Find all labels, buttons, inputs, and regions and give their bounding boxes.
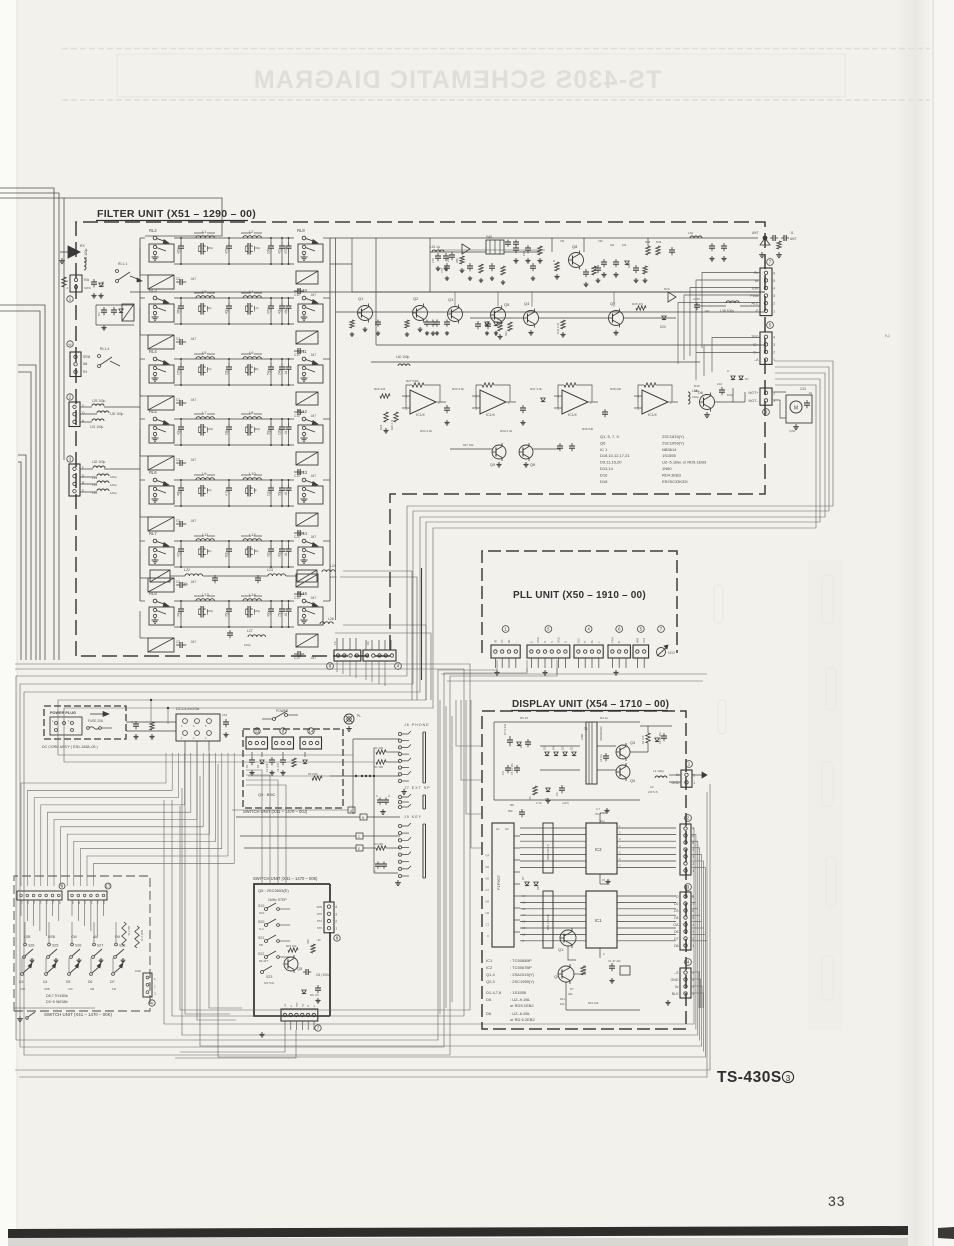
capacitor C4 150p (246, 245, 249, 247)
svg-text:RB1 (47k×8): RB1 (47k×8) (546, 914, 550, 930)
svg-text:D3: D3 (543, 746, 547, 750)
wire (140, 418, 145, 420)
svg-text:100μ: 100μ (110, 491, 117, 495)
svg-text:R1 470: R1 470 (641, 735, 645, 744)
inductor L34b (688, 392, 690, 404)
capacitor C78 220u (446, 263, 448, 266)
ground (517, 0, 519, 1)
svg-text:NOTCH: NOTCH (264, 981, 274, 985)
wire pin stub (564, 658, 566, 668)
svg-text:180p: 180p (254, 609, 261, 613)
svg-text:.04: .04 (284, 612, 288, 617)
wire conn B pins west (712, 338, 760, 373)
wire IC1 output (617, 914, 676, 916)
svg-text:42p: 42p (266, 551, 270, 557)
svg-text:14: 14 (309, 729, 314, 734)
svg-text:.047: .047 (704, 309, 710, 313)
svg-text:TX: TX (333, 641, 337, 645)
switch contact D4 (45, 973, 48, 976)
svg-text:C: C (131, 720, 133, 724)
wire bus: extra horizontals above power area (15, 664, 470, 1010)
svg-text:18p: 18p (224, 429, 228, 435)
FIP pin stub (514, 847, 520, 849)
svg-text:10k: 10k (560, 1002, 565, 1006)
svg-text:IC1/4: IC1/4 (648, 413, 657, 417)
capacitor C80b (491, 263, 493, 266)
svg-text:54p: 54p (266, 369, 270, 375)
relay coil RL6 (148, 517, 174, 531)
svg-text:.047: .047 (310, 535, 316, 539)
connector SW-J 3 (300, 737, 322, 749)
wire pin stub (618, 658, 620, 668)
wire bus: display left feed (456, 700, 482, 746)
svg-text:FWD: FWD (104, 899, 106, 904)
connector J bottom-right of filter (363, 650, 396, 661)
svg-text:RL15: RL15 (297, 591, 308, 596)
circled 5 (637, 626, 644, 633)
svg-text:Q8: Q8 (530, 463, 535, 467)
transistor Q2 (413, 306, 428, 321)
svg-text:C2: C2 (650, 785, 654, 789)
connector 3-pin C-O-A (69, 402, 80, 427)
wire (540, 745, 580, 747)
circled 4 (585, 626, 592, 633)
svg-text:GND: GND (672, 781, 680, 785)
svg-text:GND: GND (536, 637, 540, 643)
svg-text:.047 10k: .047 10k (462, 443, 474, 447)
svg-text:Q9 : B3iC: Q9 : B3iC (258, 792, 275, 797)
svg-text:O: O (543, 641, 547, 643)
svg-text:D1: D1 (570, 746, 574, 750)
svg-text:R45 47k: R45 47k (632, 302, 644, 306)
resistor cluster at Q8 (555, 262, 559, 271)
wire pin stub (544, 658, 546, 668)
op-amp IC1/4 section 4 (642, 390, 668, 414)
svg-text:2: 2 (773, 302, 775, 306)
svg-text:Q4: Q4 (554, 974, 560, 979)
wire IC2 input (520, 853, 586, 855)
svg-text:RL2: RL2 (576, 638, 580, 643)
wire IC2 output (617, 827, 676, 829)
svg-text:O3: O3 (674, 909, 679, 913)
relay coil RL14 (296, 574, 318, 587)
SWITCH UNIT J box (243, 729, 343, 808)
capacitor C52 (604, 409, 606, 412)
wire top sub-bus (437, 249, 545, 251)
svg-text:S26: S26 (28, 944, 34, 948)
svg-text:: TC5065BP: : TC5065BP (510, 958, 532, 963)
circled 4 (395, 663, 402, 670)
relay coil RL2 (148, 275, 174, 289)
wire IC2 output (617, 834, 676, 836)
svg-text:.047: .047 (190, 580, 196, 584)
mirrored bleed-through title text (253, 66, 662, 94)
svg-text:OA: OA (673, 923, 679, 927)
motor M (786, 395, 812, 423)
svg-text:–A: –A (754, 358, 759, 362)
diode D1 (119, 309, 123, 313)
svg-text:L31 100μ: L31 100μ (90, 425, 104, 429)
transistor D6 (700, 395, 715, 410)
transistor Q1 (358, 306, 373, 321)
wire amp mid (430, 251, 486, 253)
relay coil RL15 (296, 634, 318, 647)
svg-text:B: B (82, 481, 84, 485)
capacitor C15 220p (228, 302, 230, 306)
svg-text:100p: 100p (266, 247, 270, 254)
FIP pin stub (514, 919, 520, 921)
wire IC1 input (520, 908, 586, 910)
wire (568, 946, 576, 960)
svg-text:7μW: 7μW (789, 429, 795, 433)
svg-text:S23: S23 (266, 975, 272, 979)
diode D7 (655, 738, 659, 742)
trimmer VCO (657, 648, 666, 657)
wire opamp bus (371, 361, 700, 363)
svg-text:W05: W05 (317, 905, 323, 909)
inductor L34 (97, 481, 109, 483)
pilot lamp P.L (344, 714, 354, 724)
svg-text:1S1555: 1S1555 (662, 453, 677, 458)
wire IC1 input (520, 914, 586, 916)
svg-text:CW: CW (68, 987, 73, 991)
svg-text:DISPLAY UNIT (X54 – 1710 – 0: DISPLAY UNIT (X54 – 1710 – 00) (512, 699, 669, 710)
svg-text:PW5: PW5 (91, 898, 93, 904)
svg-text:D5: D5 (66, 980, 70, 984)
svg-text:R41: R41 (494, 331, 498, 336)
capacitor C34 180p (199, 426, 202, 428)
capacitor C8 47p (288, 242, 290, 246)
wire pin stub (501, 658, 503, 668)
connector 3-pin DRM (70, 352, 81, 377)
svg-text:D20: D20 (660, 325, 666, 329)
trimmer L15 (432, 250, 444, 252)
wire IC2 input (520, 860, 586, 862)
svg-text:VC: VC (500, 639, 504, 643)
ground (556, 274, 558, 276)
svg-text:S: S (550, 641, 554, 643)
capacitor .047 (294, 532, 298, 534)
inductor L24 (322, 570, 335, 572)
svg-text:Tr: Tr (583, 641, 587, 643)
svg-text:TS-430S: TS-430S (717, 1069, 782, 1086)
svg-text:MOT+: MOT+ (748, 391, 758, 395)
svg-text:G: G (563, 641, 567, 643)
circled 8 (327, 663, 334, 670)
wire pin stub (611, 658, 613, 668)
wire pin stub (584, 658, 586, 668)
capacitor cluster amp1 (437, 253, 439, 256)
svg-text:470p: 470p (224, 247, 228, 254)
svg-text:O⁠: O⁠ (676, 895, 679, 899)
connector SW-K 2 (68, 891, 107, 900)
svg-text:VCO: VCO (668, 651, 675, 655)
diode D16 (625, 261, 629, 265)
capacitor C45 cluster (559, 443, 561, 446)
svg-text:R3 100: R3 100 (374, 765, 383, 769)
relay coil RL10 (296, 331, 318, 344)
svg-text:30p: 30p (277, 490, 281, 496)
capacitor C3 880p (199, 245, 202, 247)
wire transistor base stubs (454, 292, 456, 307)
relay coil RL8 (148, 638, 174, 652)
wire pin stub (591, 658, 593, 668)
wire pin stub (336, 638, 338, 650)
svg-text:C2 22K: C2 22K (265, 763, 269, 772)
svg-text:.047: .047 (190, 519, 196, 523)
wire bus: power drops (185, 760, 230, 1014)
svg-text:R27 540k: R27 540k (406, 379, 419, 383)
capacitor .047 (294, 471, 298, 473)
wire dark signal vertical (421, 568, 423, 680)
inductor L28 (320, 622, 333, 624)
svg-text:12p: 12p (266, 490, 270, 496)
svg-text:10μ: 10μ (600, 819, 605, 823)
svg-text:RL8: RL8 (149, 591, 157, 596)
wire (374, 872, 398, 874)
svg-text:GB: GB (285, 1003, 287, 1007)
svg-text:7805180568: 7805180568 (599, 726, 603, 741)
inductor L40 100u (398, 364, 410, 366)
transformer T3 (486, 240, 504, 254)
svg-text:L34: L34 (92, 483, 97, 487)
connector 8-pin disp 3 (680, 892, 691, 950)
svg-text:IC–: IC– (753, 350, 759, 354)
resistor cluster amp2 (643, 266, 647, 274)
capacitor C13 84p (199, 305, 202, 307)
svg-text:Q4: Q4 (524, 301, 530, 306)
FIP pin stub (514, 907, 520, 909)
capacitor C165 C166 (711, 243, 713, 246)
wire bus: display conn 4 outputs (691, 972, 699, 1008)
connector SW-K right (143, 973, 152, 997)
svg-text:OFF: OFF (259, 911, 265, 915)
circled 14 (308, 728, 314, 734)
svg-text:2SC1959(Y): 2SC1959(Y) (662, 440, 685, 445)
svg-text:R7: R7 (570, 987, 574, 991)
transistor Q20 arrow (668, 292, 676, 302)
ground jack phone (403, 789, 405, 792)
svg-text:1MHz STEP: 1MHz STEP (268, 898, 287, 902)
connector 2-pin MOT (760, 388, 772, 405)
svg-text:RD4.3EB3: RD4.3EB3 (662, 472, 682, 477)
wire top bus (330, 237, 758, 239)
svg-text:R49: R49 (656, 240, 662, 244)
svg-text:J6 PHONE: J6 PHONE (404, 723, 430, 727)
capacitor .047 (176, 462, 180, 464)
circled H (149, 1000, 155, 1006)
wire (80, 406, 92, 408)
svg-text:Q5 : 2SC2603(E): Q5 : 2SC2603(E) (258, 888, 289, 893)
switch contact D3 (21, 973, 24, 976)
svg-text:: TC5067BP: : TC5067BP (510, 965, 532, 970)
inline connector C (240, 835, 356, 837)
capacitor C1 cluster (103, 307, 105, 310)
capacitor row under transistors (426, 320, 428, 323)
capacitor motor (806, 400, 808, 403)
capacitor C72 25p (288, 605, 290, 609)
diode D6 (546, 788, 550, 792)
svg-text:RL2: RL2 (149, 228, 157, 233)
svg-text:: UZ–9.1BL: : UZ–9.1BL (510, 997, 531, 1002)
capacitor C90 (770, 237, 773, 239)
wire (450, 448, 492, 450)
svg-text:100μ: 100μ (244, 643, 251, 647)
svg-text:Q7: Q7 (610, 301, 616, 306)
svg-text:RL1-1: RL1-1 (118, 262, 127, 266)
ground (348, 726, 350, 729)
resistor R32 2.7k (122, 922, 126, 946)
svg-text:-E: -E (755, 309, 759, 313)
svg-text:2: 2 (773, 351, 775, 355)
ground (397, 880, 399, 883)
connector 4-pin F-D-B-E (69, 464, 80, 496)
svg-text:E: E (358, 847, 360, 851)
svg-text:D6 .01: D6 .01 (310, 993, 319, 997)
svg-text:40p: 40p (277, 308, 281, 314)
wire (14, 1007, 95, 1009)
svg-text:.01: .01 (808, 391, 813, 395)
svg-text:L28: L28 (328, 617, 334, 621)
wire pin stub (643, 658, 645, 668)
ground (135, 734, 137, 736)
wire IC2 input (520, 840, 586, 842)
resistor R48 R49 (646, 246, 650, 255)
resistor R44 (561, 320, 565, 329)
svg-text:IOM: IOM (752, 286, 759, 290)
svg-text:: 2SA1015(Y): : 2SA1015(Y) (510, 972, 535, 977)
diode D5 (517, 742, 521, 746)
svg-text:D1: D1 (256, 764, 260, 768)
wire IC2 output (617, 867, 676, 869)
capacitor C38 12p (228, 423, 230, 427)
svg-text:BLK: BLK (672, 992, 679, 996)
capacitor cluster amp2 (597, 265, 599, 268)
inductor L1 100u (655, 776, 667, 778)
wire IC2 output (617, 853, 676, 855)
capacitor C76 (451, 252, 453, 255)
svg-text:34p: 34p (176, 611, 180, 617)
svg-text:1: 1 (693, 781, 695, 785)
wire bus: power riser taps (150, 700, 152, 724)
capacitor C32 30p (288, 484, 290, 488)
svg-text:P⁠L: P⁠L (357, 714, 361, 718)
svg-text:RX: RX (80, 244, 85, 248)
svg-text:B: B (617, 641, 621, 643)
switch contact D7 (112, 973, 115, 976)
svg-text:.047: .047 (310, 414, 316, 418)
svg-text:FW5: FW5 (98, 899, 100, 904)
inductor L27 100u (248, 635, 266, 637)
wire pin stub (342, 638, 344, 650)
svg-text:L40 100μ: L40 100μ (396, 355, 410, 359)
svg-text:D13,14: D13,14 (600, 466, 614, 471)
circled 7b (315, 1025, 321, 1031)
svg-text:L08B: L08B (580, 734, 584, 740)
capacitor C42 (522, 405, 524, 408)
svg-text:R5 10: R5 10 (520, 716, 528, 720)
svg-text:DRM: DRM (83, 355, 91, 359)
svg-text:6: 6 (773, 271, 775, 275)
svg-text:80p: 80p (224, 551, 228, 557)
svg-text:.047: .047 (190, 277, 196, 281)
wire pin stubs down (20, 900, 22, 916)
svg-text:NB: NB (83, 362, 87, 366)
svg-text:Q1⁠, 5, 7⁠, 9: Q1⁠, 5, 7⁠, 9 (600, 434, 619, 439)
resistor R56 (479, 264, 483, 273)
wire IC2 pin15 (599, 874, 601, 884)
svg-text:H: H (151, 1002, 154, 1006)
capacitor C9 (317, 985, 319, 988)
svg-text:R34 3.3k: R34 3.3k (420, 429, 433, 433)
capacitor C16 40p (270, 302, 272, 306)
svg-text:G1: G1 (496, 827, 500, 831)
svg-text:S19: S19 (258, 904, 264, 908)
svg-text:D16: D16 (600, 472, 608, 477)
wire (715, 401, 745, 403)
connector SW-J 2 (272, 737, 294, 749)
capacitor C88 40p (180, 423, 182, 427)
svg-text:Q1: Q1 (358, 296, 364, 301)
svg-text:D1⁠-4,7,8: D1⁠-4,7,8 (486, 990, 502, 995)
svg-text:R8: R8 (510, 803, 514, 807)
resistor at Q2 (405, 320, 409, 328)
capacitor C66 (135, 721, 137, 724)
svg-text:RF ATT: RF ATT (259, 959, 269, 963)
svg-text:C2: C2 (176, 580, 180, 584)
svg-text:RA: RA (301, 1003, 304, 1007)
resistor R1 470 (646, 733, 650, 743)
svg-text:D5: D5 (486, 997, 492, 1002)
svg-text:Q1: Q1 (558, 947, 564, 952)
svg-text:3: 3 (773, 343, 775, 347)
svg-text:D6: D6 (88, 980, 92, 984)
connector J bottom-left of filter (334, 650, 361, 661)
svg-text:Q9: Q9 (490, 463, 495, 467)
svg-text:C81: C81 (522, 250, 526, 256)
svg-text:180p: 180p (207, 609, 214, 613)
wire IC1 output (617, 901, 676, 903)
capacitor C68 42p (228, 605, 230, 609)
resistor R3 100 (376, 760, 386, 764)
svg-text:Q5: Q5 (630, 779, 635, 783)
svg-text:L34: L34 (717, 382, 722, 386)
capacitor C26 22p (270, 363, 272, 367)
svg-text:J7 EXT SP: J7 EXT SP (404, 786, 431, 790)
IC U1 (IC1) (586, 891, 617, 948)
connector PLL 6 (608, 645, 630, 658)
svg-text:–S: –S (674, 971, 679, 975)
svg-text:100μ: 100μ (330, 575, 337, 579)
inductor L33 (97, 474, 109, 476)
wire pin stub (508, 658, 510, 668)
svg-text:880p: 880p (207, 246, 214, 250)
capacitor .047 (176, 281, 180, 283)
FIP pin stub (514, 859, 520, 861)
wire IC1 output (617, 940, 676, 942)
junction M (67, 341, 73, 347)
wire to rows (104, 406, 140, 408)
svg-text:R30 2.7k: R30 2.7k (140, 930, 144, 942)
svg-text:4: 4 (335, 905, 337, 909)
wire pin stub (494, 658, 496, 668)
wire pin stub (349, 638, 351, 650)
circled 1 (686, 761, 693, 768)
capacitor C82 (585, 269, 587, 272)
wire bus: right mid verticals (439, 700, 441, 1014)
wire (140, 540, 145, 542)
wire row RL5 (174, 418, 294, 420)
